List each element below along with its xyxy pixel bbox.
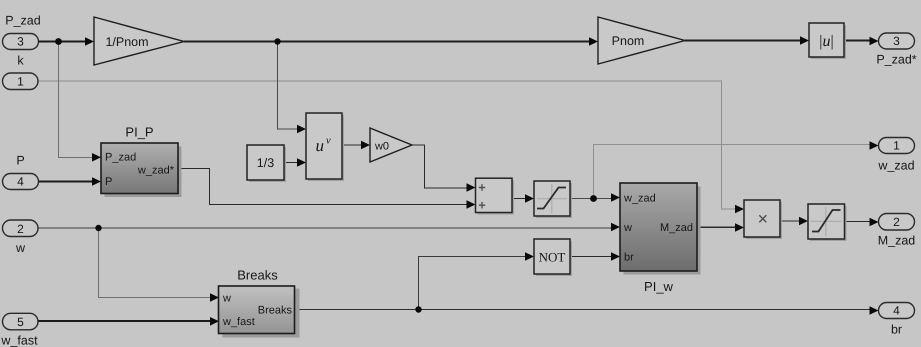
svg-text:2: 2 [893, 215, 900, 229]
svg-text:P: P [105, 176, 112, 188]
svg-text:2: 2 [17, 222, 24, 236]
svg-text:P_zad: P_zad [105, 152, 136, 164]
svg-text:3: 3 [893, 34, 900, 48]
svg-text:w: w [623, 222, 632, 234]
svg-text:Pnom: Pnom [612, 34, 645, 48]
svg-text:P_zad: P_zad [5, 14, 40, 28]
svg-text:5: 5 [17, 315, 24, 329]
svg-text:4: 4 [17, 175, 24, 189]
svg-text:1: 1 [17, 75, 24, 89]
svg-text:w_fast: w_fast [222, 316, 255, 328]
svg-text:Breaks: Breaks [258, 305, 293, 317]
svg-text:u: u [316, 136, 325, 155]
svg-text:k: k [17, 54, 24, 68]
svg-text:br: br [624, 252, 634, 264]
svg-text:P_zad*: P_zad* [876, 53, 916, 67]
svg-text:Breaks: Breaks [237, 268, 278, 283]
svg-text:1: 1 [893, 139, 900, 153]
svg-text:w: w [15, 241, 26, 255]
svg-text:4: 4 [893, 304, 900, 318]
svg-text:br: br [891, 323, 902, 337]
svg-text:|u|: |u| [819, 33, 833, 50]
svg-text:w_zad*: w_zad* [137, 165, 175, 177]
svg-text:P: P [16, 154, 24, 168]
svg-text:w: w [222, 293, 231, 305]
svg-text:1/3: 1/3 [257, 156, 274, 170]
svg-text:M_zad: M_zad [660, 222, 693, 234]
svg-text:v: v [326, 136, 331, 147]
svg-text:1/Pnom: 1/Pnom [105, 35, 148, 49]
svg-text:NOT: NOT [539, 250, 566, 265]
svg-text:PI_w: PI_w [644, 279, 674, 294]
svg-text:M_zad: M_zad [878, 234, 916, 248]
svg-text:3: 3 [17, 35, 24, 49]
svg-text:w_fast: w_fast [0, 334, 38, 347]
svg-text:w_zad: w_zad [877, 159, 914, 173]
svg-text:w0: w0 [374, 141, 389, 153]
svg-text:PI_P: PI_P [125, 125, 153, 140]
svg-text:w_zad: w_zad [623, 193, 656, 205]
